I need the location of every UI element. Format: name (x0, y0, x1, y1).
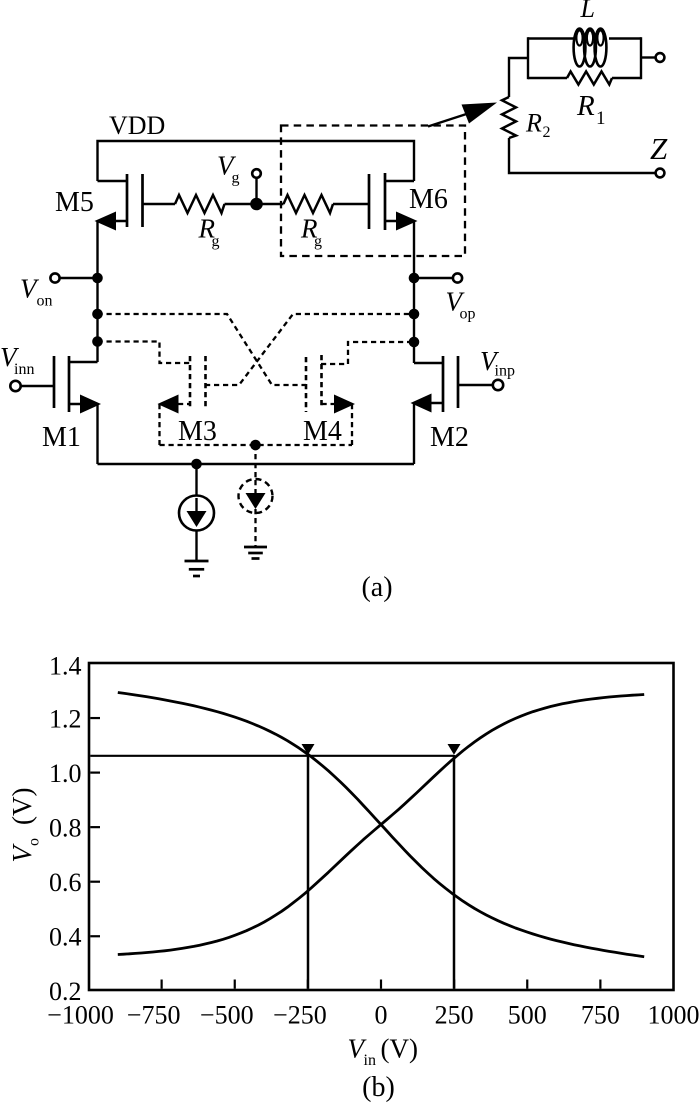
svg-text:L: L (580, 0, 595, 23)
dashed box (replica branch) (281, 126, 465, 257)
chart axes box (89, 663, 674, 990)
wire solid tail rail (98, 463, 415, 465)
current source I2 (dashed) (239, 445, 273, 547)
transistor M2 (411, 356, 469, 453)
svg-text:g: g (232, 170, 240, 187)
inductor L (528, 0, 641, 67)
svg-text:on: on (37, 293, 53, 310)
svg-text:M6: M6 (409, 184, 448, 215)
y tick marks (90, 718, 100, 936)
svg-text:(V): (V) (381, 1034, 418, 1064)
svg-text:0.6: 0.6 (49, 868, 82, 897)
wire L/R1 right side (640, 37, 642, 79)
svg-text:Z: Z (650, 131, 668, 166)
svg-text:−750: −750 (127, 1001, 181, 1030)
wire M5 gate (143, 203, 176, 205)
wire VDD rail (98, 141, 415, 181)
svg-text:in: in (364, 1052, 376, 1069)
resistor Rg (right) (284, 195, 334, 250)
x axis title Vin (V) (348, 1034, 418, 1070)
resistor R2 (502, 97, 551, 141)
svg-text:1: 1 (596, 108, 606, 129)
svg-text:op: op (460, 305, 476, 322)
wire cross-couple B (right node to M3 gate) (205, 314, 414, 385)
wire M2 source down (413, 403, 415, 464)
svg-text:(a): (a) (361, 572, 392, 603)
marker triangle right (448, 744, 461, 755)
svg-text:M3: M3 (178, 416, 217, 447)
svg-text:VDD: VDD (109, 111, 165, 140)
wire M1 source down (96, 404, 98, 464)
node junction left lower cross (92, 336, 103, 347)
label (a) (361, 572, 392, 603)
y tick labels (49, 652, 82, 1007)
svg-text:1000: 1000 (648, 1001, 700, 1030)
svg-text:M2: M2 (430, 422, 469, 453)
node junction right (Vop tap) (409, 273, 420, 284)
svg-text:2: 2 (543, 124, 551, 141)
wire M3 source down (158, 404, 160, 445)
label (b) (362, 1072, 395, 1103)
ground (right) (244, 547, 267, 559)
net label VDD (109, 111, 165, 140)
wire Rg left to Vg node (225, 203, 284, 205)
svg-text:(V): (V) (7, 788, 37, 825)
svg-text:250: 250 (435, 1001, 474, 1030)
svg-text:inp: inp (495, 363, 515, 380)
net label Z (650, 131, 668, 166)
wire R2 to bottom terminal (509, 138, 655, 173)
x tick labels (47, 1001, 699, 1030)
node Vinp (458, 346, 515, 390)
curve Vo increasing (118, 695, 644, 955)
wire dashed tail rail (160, 444, 353, 446)
current source I1 (179, 464, 214, 561)
transistor M4 (303, 355, 355, 447)
resistor R1 (528, 72, 641, 130)
wire L/R1 left side (527, 37, 529, 79)
node Vg (217, 151, 263, 211)
wire right output column (413, 221, 415, 363)
svg-text:g: g (314, 233, 322, 250)
node junction right upper cross (409, 309, 420, 320)
node junction left upper cross (92, 309, 103, 320)
wire M4 drain step (321, 342, 414, 364)
ground (left) (185, 561, 209, 576)
svg-text:M4: M4 (303, 416, 342, 447)
node Vop (414, 273, 476, 322)
svg-text:750: 750 (581, 1001, 620, 1030)
svg-text:1.2: 1.2 (49, 704, 82, 733)
wire to top terminal (641, 56, 655, 58)
svg-text:R: R (525, 109, 542, 138)
node Vinn (0, 342, 54, 391)
x tick marks (162, 980, 601, 989)
svg-text:0: 0 (375, 1001, 388, 1030)
vertical line at +250 (453, 755, 456, 989)
curve Vo decreasing (118, 693, 644, 957)
transistor M3 (158, 356, 217, 447)
svg-text:−500: −500 (200, 1001, 254, 1030)
svg-text:0.8: 0.8 (49, 813, 82, 842)
y axis title Vo (V) (7, 788, 43, 863)
resistor Rg (left) (175, 195, 225, 250)
svg-text:g: g (212, 233, 220, 250)
node junction right lower cross (409, 337, 420, 348)
wire L/R1 to R2 (509, 58, 528, 97)
svg-text:inn: inn (14, 361, 34, 378)
arrow to Z network (428, 103, 497, 127)
svg-text:R: R (576, 90, 595, 122)
svg-text:1.0: 1.0 (49, 759, 82, 788)
node tail junction (191, 459, 202, 470)
horizontal threshold line (90, 755, 454, 757)
svg-text:M1: M1 (42, 422, 81, 453)
wire M4 source down (351, 404, 353, 445)
vertical line at -250 (307, 755, 310, 989)
terminal (top right) (656, 53, 665, 62)
svg-text:M5: M5 (55, 187, 94, 218)
wire cross-couple A (left node to M4 gate) (98, 314, 307, 385)
transistor M1 (42, 356, 101, 453)
marker triangle left (302, 744, 315, 755)
wire M3 drain step (98, 342, 191, 364)
transistor M5 (55, 174, 143, 231)
svg-text:−250: −250 (273, 1001, 327, 1030)
wire Rg right to M6 gate (333, 203, 369, 205)
node junction left (Von tap) (92, 273, 103, 284)
svg-text:1.4: 1.4 (49, 652, 82, 681)
transistor M6 (369, 173, 448, 231)
svg-text:−1000: −1000 (47, 1001, 114, 1030)
svg-text:0.4: 0.4 (49, 922, 82, 951)
svg-text:500: 500 (508, 1001, 547, 1030)
svg-text:o: o (26, 838, 43, 846)
terminal (bottom right) (656, 169, 665, 178)
node Von (20, 273, 98, 309)
svg-text:(b): (b) (362, 1072, 395, 1103)
wire left output column (96, 221, 98, 362)
node dashed tail junction (250, 440, 261, 451)
